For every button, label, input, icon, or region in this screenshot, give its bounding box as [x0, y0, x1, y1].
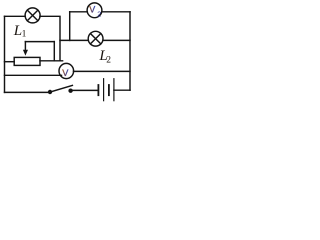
wire V2 to right corner: [102, 11, 130, 13]
wire switch to battery: [73, 89, 98, 91]
svg-text:V: V: [89, 4, 95, 14]
wire wiper horizontal: [25, 41, 54, 43]
wire from lamp L1 to corner and vertical A down: [40, 16, 60, 61]
wire rheostat right side to voltmeter stub: [40, 60, 63, 62]
wire left vertical: [4, 16, 6, 92]
wire vertical B (voltmeter V2 branch drop): [69, 12, 71, 41]
voltmeter V2 letter: [89, 4, 101, 18]
wire bottom rail to switch: [5, 91, 49, 93]
wire left vertical to rheostat box: [5, 61, 15, 63]
wire battery to bottom-right corner: [114, 89, 130, 91]
voltmeter V circle: [59, 63, 74, 78]
battery cell plates: [98, 85, 109, 95]
switch contact dot 2: [68, 89, 72, 93]
switch contact dot 1: [48, 90, 52, 94]
wire wiper vertical drop: [53, 42, 55, 61]
wire voltmeter V to right vertical: [74, 70, 131, 72]
svg-text:2: 2: [97, 12, 101, 19]
svg-text:V: V: [62, 68, 69, 78]
label L2: [98, 48, 111, 66]
rheostat wiper arrow: [23, 42, 28, 56]
rheostat R body: [14, 57, 40, 65]
wire left vertical to voltmeter V left terminal: [5, 74, 62, 76]
wire lamp L2 to right vertical: [103, 39, 130, 41]
svg-text:1: 1: [22, 30, 27, 40]
svg-text:2: 2: [106, 56, 111, 66]
lamp L1: [25, 8, 40, 23]
wire node row: L2 branch horizontal: [60, 39, 88, 41]
wire V2 branch horizontal: [70, 11, 88, 13]
wire top-left horizontal to lamp L1: [5, 15, 26, 17]
lamp L2: [88, 31, 103, 46]
switch lever: [51, 85, 72, 91]
label L1: [13, 23, 27, 40]
wire right vertical: [129, 12, 131, 90]
voltmeter V2 circle: [87, 3, 102, 18]
